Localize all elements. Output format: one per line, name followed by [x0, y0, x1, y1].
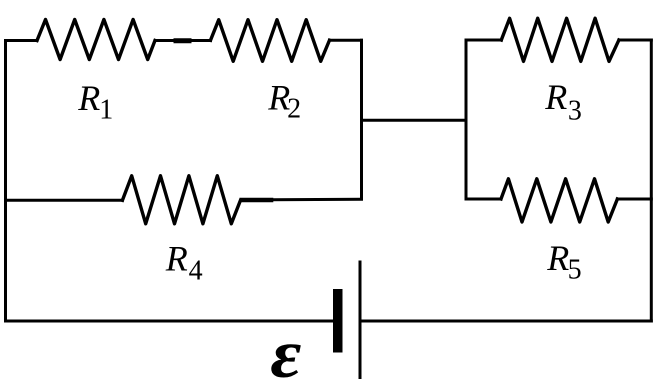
wire left vertical	[4, 41, 7, 322]
wire top-right of R2 to node	[330, 39, 362, 42]
svg-text:3: 3	[568, 95, 582, 126]
wire top of right block right segment	[619, 39, 651, 42]
label R1	[77, 78, 113, 125]
svg-text:R: R	[77, 78, 100, 118]
wire bottom right segment	[360, 320, 651, 323]
wire top of right block left segment	[466, 39, 501, 42]
wire bottom of right block left segment	[466, 198, 501, 201]
label R4	[165, 239, 203, 287]
svg-text:5: 5	[568, 255, 582, 286]
resistor R5	[501, 179, 617, 222]
svg-text:1: 1	[99, 94, 113, 125]
battery positive plate (thin long bar)	[359, 262, 362, 379]
junction dash between R1 and R2	[176, 38, 189, 43]
wire middle connecting link	[362, 119, 467, 122]
svg-text:R: R	[546, 238, 569, 278]
label R2	[267, 78, 301, 125]
svg-text:R: R	[165, 239, 188, 279]
wire R4 branch left segment	[6, 199, 123, 202]
svg-text:4: 4	[189, 255, 203, 286]
resistor R4	[122, 176, 240, 224]
wire left vertical of right block	[465, 40, 468, 199]
resistor R1	[37, 20, 155, 60]
wire top-left segment	[6, 39, 38, 42]
resistor R3	[501, 18, 619, 61]
battery negative plate (thick bar)	[333, 289, 343, 353]
wire between R1 and R2	[155, 39, 211, 42]
wire bottom left segment	[6, 320, 334, 323]
wire right vertical	[650, 40, 653, 321]
wire bottom of right block right segment	[617, 198, 651, 201]
svg-text:2: 2	[287, 93, 301, 124]
wire R4 branch right segment	[271, 198, 362, 201]
svg-text:ε: ε	[270, 316, 301, 379]
label R5	[546, 238, 581, 286]
resistor R2	[211, 20, 330, 62]
wire right vertical of left block	[360, 40, 363, 199]
junction dash right of R4	[242, 198, 271, 203]
label R3	[544, 77, 582, 126]
svg-text:R: R	[544, 77, 567, 117]
